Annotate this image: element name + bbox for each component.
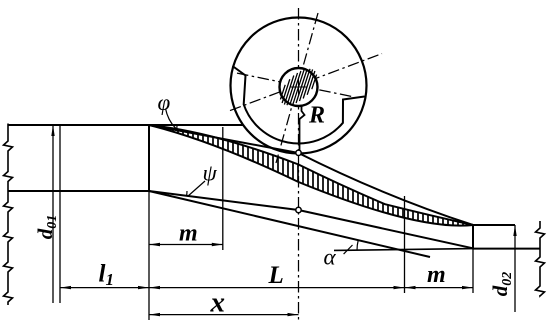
svg-text:R: R — [308, 102, 325, 128]
svg-text:m: m — [179, 221, 198, 247]
svg-text:x: x — [210, 287, 226, 319]
svg-text:L: L — [268, 262, 284, 289]
svg-text:α: α — [324, 245, 337, 270]
svg-text:m: m — [427, 262, 446, 288]
svg-text:φ: φ — [158, 90, 171, 115]
svg-text:ψ: ψ — [203, 161, 218, 186]
